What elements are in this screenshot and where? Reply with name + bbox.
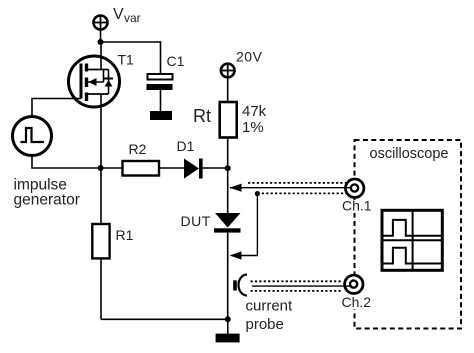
svg-text:probe: probe	[246, 316, 284, 333]
node C junction dot	[225, 165, 231, 171]
wire T1 gate	[32, 99, 81, 117]
label Ch.1	[341, 198, 372, 214]
capacitor C1	[147, 74, 173, 111]
transistor T1 (MOSFET)	[69, 56, 120, 107]
svg-text:C1: C1	[167, 53, 185, 69]
svg-text:R1: R1	[116, 227, 134, 243]
supply 20V symbol	[221, 64, 235, 78]
wire Vvar to node A	[100, 30, 102, 43]
wire T1 source down to node B	[100, 94, 102, 168]
arrow to node below DUT	[230, 251, 242, 259]
svg-text:Rt: Rt	[193, 106, 211, 126]
wire node A to C1 top	[101, 42, 161, 74]
label Vvar	[113, 6, 141, 25]
coax Ch.1 lower shield dashes	[257, 192, 346, 194]
wire generator bottom to node B	[32, 156, 101, 169]
oscilloscope dashed box	[355, 140, 462, 329]
coax Ch.1 centre wire	[230, 187, 351, 189]
current probe clamp	[233, 275, 247, 296]
wire 20V to Rt	[227, 77, 229, 102]
wire node E to ground	[227, 319, 229, 333]
svg-text:R2: R2	[129, 141, 147, 157]
coax Ch.2 upper shield dashes	[251, 280, 344, 282]
coax Ch.2 centre wire	[252, 285, 350, 287]
svg-text:generator: generator	[14, 192, 80, 209]
wire node C down to DUT	[227, 168, 229, 213]
wire node A to T1 drain	[100, 42, 102, 70]
diode DUT	[214, 213, 241, 233]
svg-text:20V: 20V	[236, 49, 263, 65]
resistor R2	[101, 161, 185, 176]
diode D1	[184, 159, 228, 179]
svg-text:current: current	[246, 298, 294, 315]
screen trace Ch.2 waveform	[384, 248, 442, 264]
label current probe	[246, 298, 294, 334]
node B junction dot	[98, 165, 104, 171]
svg-text:Ch.2: Ch.2	[342, 294, 372, 310]
node A junction dot	[98, 39, 104, 45]
label Ch.2	[341, 294, 372, 310]
node E bottom junction dot	[225, 316, 231, 322]
arrow to node above DUT	[230, 184, 242, 192]
ground bottom	[216, 334, 240, 343]
screen trace Ch.1 waveform	[384, 220, 442, 236]
oscilloscope screen	[382, 210, 442, 270]
svg-text:47k: 47k	[242, 103, 267, 120]
connector Ch.2 BNC	[345, 275, 363, 293]
svg-text:1%: 1%	[242, 119, 264, 136]
svg-text:T1: T1	[118, 52, 135, 68]
wire node D down to below-DUT arrow	[232, 194, 257, 256]
resistor R1	[92, 168, 109, 319]
resistor Rt	[220, 102, 237, 168]
svg-text:Ch.1: Ch.1	[342, 198, 372, 214]
ground under C1	[150, 111, 172, 120]
svg-text:D1: D1	[177, 138, 195, 154]
node D junction dot	[255, 191, 260, 196]
svg-text:DUT: DUT	[181, 213, 211, 229]
wire bottom rail	[101, 318, 228, 320]
supply Vvar symbol	[94, 16, 108, 30]
svg-text:V: V	[113, 6, 124, 23]
coax Ch.2 lower shield dashes	[251, 290, 344, 292]
connector Ch.1 BNC	[346, 179, 364, 197]
impulse generator source	[13, 117, 52, 156]
svg-text:var: var	[124, 11, 141, 25]
label impulse generator	[14, 177, 80, 209]
wire DUT to bottom node	[227, 233, 229, 320]
coax Ch.1 upper shield dashes	[248, 182, 346, 184]
svg-text:oscilloscope: oscilloscope	[370, 146, 449, 162]
